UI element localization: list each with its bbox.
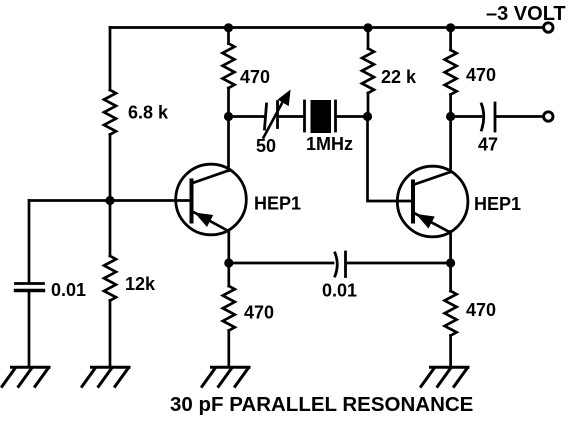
crystal Y1 1MHz left plate <box>303 101 306 131</box>
node: crystal / Q2 base node <box>363 112 372 121</box>
svg-text:50: 50 <box>256 136 276 156</box>
wire: R7 to ground <box>449 336 452 367</box>
node: Q2 collector / output node <box>446 112 455 121</box>
svg-text:470: 470 <box>466 300 496 320</box>
wire: R5 to collector node <box>449 95 452 171</box>
svg-text:22 k: 22 k <box>381 67 417 87</box>
transistor Q2 circle <box>397 166 468 237</box>
ground G1 <box>2 367 49 386</box>
node: base bias node <box>105 196 114 205</box>
resistor R7 470 (Q2 emitter) <box>445 291 457 336</box>
svg-text:0.01: 0.01 <box>51 280 86 300</box>
svg-text:HEP1: HEP1 <box>254 194 301 214</box>
svg-text:30 pF PARALLEL RESONANCE: 30 pF PARALLEL RESONANCE <box>170 393 473 416</box>
transistor Q1 base bar <box>190 181 194 222</box>
svg-text:12k: 12k <box>125 274 156 294</box>
variable capacitor C2 arrow <box>264 92 290 138</box>
svg-text:–3 VOLT: –3 VOLT <box>486 3 566 25</box>
crystal Y1 right plate <box>334 101 337 131</box>
transistor Q2 emitter lead <box>414 213 450 232</box>
transistor Q2 base bar <box>411 182 415 222</box>
node: rail junction at R4 <box>363 23 372 32</box>
svg-text:47: 47 <box>478 135 498 155</box>
capacitor C1 0.01 bottom plate <box>16 289 44 292</box>
transistor Q2 emitter arrow (PNP) <box>418 215 434 227</box>
node: Q1 emitter node <box>224 258 233 267</box>
wire: top supply rail <box>110 26 544 29</box>
resistor R5 470 (Q2 collector load) <box>445 50 457 94</box>
wire: varcap to crystal <box>278 115 303 118</box>
ground G3 <box>202 367 249 386</box>
resistor R3 470 (Q1 collector load) <box>223 44 235 88</box>
ground G2 <box>82 367 129 386</box>
wire: R3 to collector node <box>227 88 230 171</box>
node: rail junction at R5 <box>446 23 455 32</box>
transistor Q1 collector lead <box>193 171 229 184</box>
capacitor C4 0.01 left plate (curved) <box>335 253 337 276</box>
capacitor C1 0.01 top plate <box>16 282 44 285</box>
ground G4 <box>421 367 468 386</box>
resistor R6 470 (Q1 emitter) <box>223 286 235 331</box>
transistor Q2 collector lead <box>414 172 450 185</box>
svg-text:470: 470 <box>244 303 274 323</box>
node: Q1 collector / tank node <box>224 112 233 121</box>
variable capacitor C2 50 pF left plate <box>265 104 267 129</box>
wire: C1 to ground <box>28 292 31 366</box>
variable capacitor C2 right plate <box>276 102 279 128</box>
wire: rail to R5 <box>449 28 452 51</box>
wire: base node down to 12k <box>109 201 112 257</box>
wire: node down and to Q2 base <box>368 117 412 202</box>
node: Q2 emitter node <box>446 258 455 267</box>
wire: node to C3 <box>451 115 481 118</box>
resistor R4 22 k <box>362 49 374 93</box>
transistor Q1 circle <box>176 164 247 235</box>
wire: base line to Q1 <box>29 199 190 202</box>
svg-text:0.01: 0.01 <box>322 281 357 301</box>
wire: C4 to Q2 emitter node <box>347 262 451 265</box>
wire: R4 to crystal node <box>367 93 370 117</box>
capacitor C4 0.01 right plate <box>344 252 347 277</box>
svg-text:470: 470 <box>466 65 496 85</box>
transistor Q1 emitter arrow (PNP) <box>197 214 213 226</box>
svg-text:HEP1: HEP1 <box>474 194 521 214</box>
svg-text:6.8 k: 6.8 k <box>128 103 169 123</box>
wire: left rail top (6.8k branch) <box>109 28 112 91</box>
svg-text:1MHz: 1MHz <box>306 134 353 154</box>
crystal Y1 body <box>311 100 332 133</box>
resistor R1 6.8 k <box>104 90 116 134</box>
wire: node to variable capacitor <box>229 115 264 118</box>
node: rail junction at R3 <box>224 23 233 32</box>
wire: 6.8k bottom to base node <box>109 135 112 201</box>
wire: left branch down to C1 <box>28 201 31 282</box>
wire: 12k to ground <box>109 301 112 367</box>
terminal: -3 VOLT supply <box>544 23 553 32</box>
wire: emitter node to C4 <box>229 262 333 265</box>
capacitor C3 47 right plate <box>494 103 497 131</box>
wire: Q2 emitter down <box>449 232 452 292</box>
wire: R6 to ground <box>227 331 230 367</box>
wire: C3 to output terminal <box>497 115 544 118</box>
wire: rail to R3 <box>227 28 230 44</box>
terminal: output <box>544 112 553 121</box>
transistor Q1 emitter lead <box>193 212 228 231</box>
wire: crystal to 22k node <box>337 115 368 118</box>
capacitor C3 47 left plate (curved) <box>482 104 484 130</box>
resistor R2 12k <box>104 256 116 301</box>
svg-text:470: 470 <box>240 67 270 87</box>
wire: rail to R4 <box>367 28 370 49</box>
wire: Q1 emitter down <box>227 231 230 287</box>
